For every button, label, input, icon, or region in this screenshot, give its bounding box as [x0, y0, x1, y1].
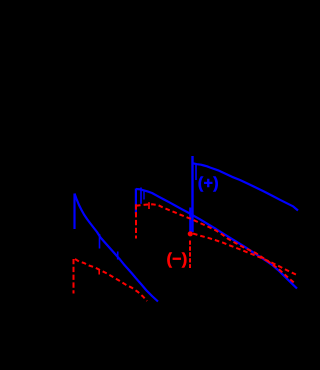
pulse 1 red small tick [98, 269, 100, 275]
pulse 1 red recovery jump (dashed vertical) [73, 259, 75, 294]
pulse 1 blue recovery jump (vertical) [73, 194, 75, 230]
pulse 2 blue small tick b [143, 191, 145, 200]
pulse 3 red decay curve (dashed) [193, 234, 297, 275]
pulse 2 blue small tick a [140, 188, 142, 204]
pulse 1 blue decay curve [75, 194, 159, 302]
pulse 2 red recovery jump (dashed vertical) [135, 204, 137, 238]
pulse 1 red decay curve (dashed) [75, 259, 147, 301]
pulse 3 blue drop line (vertical, end of pulse 2 segment) [189, 208, 191, 233]
svg-text:(−): (−) [167, 251, 188, 268]
pulse 3 blue decay curve [193, 163, 298, 210]
pulse 3 blue small tick [195, 164, 197, 180]
pulse 3 red junction blob [188, 231, 193, 236]
pulse 2 blue recovery jump (vertical) [135, 189, 137, 214]
pulse 2 red small tick [148, 202, 150, 209]
pulse 2 blue decay curve [136, 189, 297, 289]
pulse 1 blue small tick b [117, 252, 119, 260]
pulse 3 blue recovery jump (vertical) [191, 156, 193, 232]
svg-text:(+): (+) [198, 175, 219, 192]
pulse 2 red decay curve (dashed) [136, 204, 296, 284]
pulse 1 blue small tick a [99, 234, 101, 249]
pulse 3 red recovery jump (dashed vertical) [189, 241, 191, 269]
